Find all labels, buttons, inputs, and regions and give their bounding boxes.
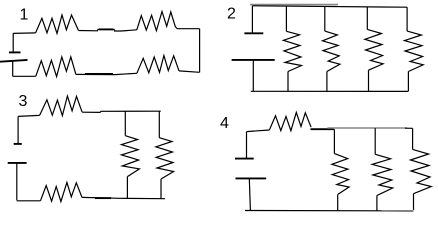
battery B3 vertical lead top xyxy=(17,117,19,144)
wire C1 bottom-middle xyxy=(76,73,137,74)
resistor R4 (circuit 1 bottom-right) xyxy=(137,56,179,74)
wire C1 top-left xyxy=(13,32,35,35)
wire C2 top rail xyxy=(252,6,407,7)
resistor R14 top stub (circuit 4, #1) xyxy=(333,129,335,153)
wire C1 bottom-middle overlap stroke xyxy=(85,73,113,75)
battery B1 long plate xyxy=(0,60,28,62)
battery B3 long plate xyxy=(8,162,27,164)
resistor R5 top stub (circuit 2, #1) xyxy=(285,6,287,31)
wire C1 bottom-left xyxy=(13,75,36,77)
resistor R7 top stub (circuit 2, #3) xyxy=(366,7,368,30)
wire C3 bottom-left xyxy=(17,200,41,202)
resistor R10 top stub (circuit 3 parallel left) xyxy=(124,111,126,135)
battery B1 short plate xyxy=(9,51,21,53)
wire C1 right vertical xyxy=(199,29,201,73)
battery B2 short plate xyxy=(244,32,263,34)
resistor R5 bottom stub xyxy=(287,72,289,92)
resistor R14 bottom stub xyxy=(337,194,339,210)
resistor R7 (circuit 2, #3) xyxy=(365,29,383,70)
resistor R11 bottom stub xyxy=(160,179,162,199)
resistor R5 (circuit 2, #1) xyxy=(283,31,301,71)
battery B2 long plate xyxy=(232,59,275,61)
resistor R11 (circuit 3 parallel right) xyxy=(156,138,174,179)
wire C3 top-left xyxy=(18,115,39,116)
wire C1 top-right xyxy=(177,28,200,30)
wire C4 top-left xyxy=(247,130,270,132)
resistor R15 top stub (circuit 4, #2) xyxy=(374,128,376,154)
resistor R6 (circuit 2, #2) xyxy=(323,31,340,71)
battery B2 vertical lead bottom xyxy=(252,60,254,91)
resistor R16 bottom stub xyxy=(413,194,415,210)
wire C1 top-middle xyxy=(78,29,136,31)
wire C2 top rail gray overlap stroke xyxy=(250,4,338,6)
wire C4 top-right corner xyxy=(405,127,413,129)
svg-text:2: 2 xyxy=(227,6,236,23)
wire C1 bottom-right xyxy=(179,71,200,72)
resistor R10 (circuit 3 parallel left) xyxy=(122,136,140,177)
resistor R15 bottom stub xyxy=(376,196,378,211)
resistor R2 (circuit 1 top-right) xyxy=(137,12,177,31)
resistor R3 (circuit 1 bottom-left) xyxy=(36,57,76,77)
resistor R8 (circuit 2, #4) xyxy=(405,31,424,71)
wire C2 bottom rail xyxy=(251,90,408,92)
battery B4 long plate xyxy=(236,177,267,179)
battery B4 vertical lead top xyxy=(246,132,248,159)
resistor R8 top stub (circuit 2, #4) xyxy=(406,7,408,31)
wire C1 top-middle overlap stroke xyxy=(99,28,113,30)
battery B3 vertical lead bottom xyxy=(16,163,18,201)
wire C3 bottom-right xyxy=(82,197,165,198)
svg-text:3: 3 xyxy=(19,93,28,110)
battery B2 vertical lead top xyxy=(251,6,253,33)
resistor R16 (circuit 4, #3) xyxy=(411,149,432,193)
resistor R13 (circuit 4 top) xyxy=(269,112,311,130)
battery B4 vertical lead bottom xyxy=(249,178,250,210)
wire C4 top-right gray stroke xyxy=(328,127,408,129)
resistor R14 (circuit 4, #1) xyxy=(332,154,349,195)
resistor R11 top stub (circuit 3 parallel right) xyxy=(158,111,160,138)
wire C3 bottom overlap stroke xyxy=(95,197,111,199)
resistor R12 (circuit 3 bottom) xyxy=(41,182,83,201)
battery B4 short plate xyxy=(235,158,254,160)
wire C4 bottom rail xyxy=(245,210,414,212)
resistor R1 (circuit 1 top-left) xyxy=(36,15,79,33)
resistor R15 (circuit 4, #2) xyxy=(372,154,393,195)
battery B1 vertical lead top xyxy=(12,33,14,52)
battery B3 short plate xyxy=(14,143,22,145)
resistor R9 (circuit 3 top) xyxy=(40,96,83,116)
resistor R6 bottom stub xyxy=(326,72,328,92)
resistor R10 bottom stub xyxy=(126,177,128,199)
resistor R16 top stub (circuit 4, #3) xyxy=(412,128,414,149)
battery B1 vertical lead bottom xyxy=(12,61,14,76)
resistor R8 bottom stub xyxy=(407,72,409,92)
wire C3 top-right xyxy=(82,111,161,112)
resistor R6 top stub (circuit 2, #2) xyxy=(324,6,326,31)
resistor R7 bottom stub xyxy=(368,70,370,91)
svg-text:1: 1 xyxy=(20,7,29,24)
wire C4 top-right black stroke xyxy=(311,128,335,130)
svg-text:4: 4 xyxy=(220,115,229,132)
